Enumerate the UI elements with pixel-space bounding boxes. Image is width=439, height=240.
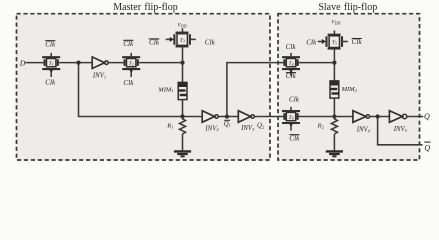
svg-text:INV4: INV4 <box>356 127 371 134</box>
transmission gate T2 <box>122 53 140 77</box>
svg-text:VDD: VDD <box>177 23 186 29</box>
wire Q1-bar riser to slave <box>227 63 285 117</box>
svg-text:INV5: INV5 <box>393 126 408 133</box>
inverter INV2 <box>202 111 219 133</box>
node G junction <box>376 114 380 118</box>
svg-text:D: D <box>19 58 26 67</box>
wire INV3 to slave T6 <box>254 116 284 118</box>
pin label Clk-bar left of T3 <box>149 39 160 47</box>
wire T1 to INV1 <box>58 62 92 64</box>
svg-text:R2: R2 <box>317 123 325 130</box>
pin label Clk-bar below T4 <box>286 72 297 80</box>
svg-text:T1: T1 <box>49 61 54 67</box>
inverter INV5 <box>389 111 407 133</box>
wire node A feedback riser <box>79 63 203 117</box>
svg-text:MIM2: MIM2 <box>341 86 358 93</box>
svg-text:T2: T2 <box>129 61 134 67</box>
node C junction <box>180 114 184 118</box>
pin label Clk-bar above T1 <box>45 40 56 48</box>
master flip-flop dashed box <box>17 14 271 160</box>
svg-text:Q: Q <box>424 112 430 121</box>
svg-text:Clk: Clk <box>286 72 297 80</box>
inverter INV3 <box>238 111 255 132</box>
wire T4 to node E <box>298 62 335 64</box>
svg-text:Clk: Clk <box>289 96 300 104</box>
wire T5 to node E <box>333 49 335 63</box>
transmission gate T3 (vertical, to Vdd) <box>166 28 196 46</box>
svg-text:Clk: Clk <box>45 79 56 87</box>
wire INV1 to T2 <box>108 62 124 64</box>
wire INV2 to INV3 <box>218 116 238 118</box>
node B junction <box>180 61 184 65</box>
wire T2 to node B <box>138 62 183 64</box>
svg-text:Clk: Clk <box>306 39 317 47</box>
wire T6 to INV4 <box>298 116 353 118</box>
svg-text:Clk: Clk <box>123 79 134 87</box>
node E junction <box>332 61 336 65</box>
wire MIM2 to lower rail <box>333 98 335 116</box>
svg-text:Clk: Clk <box>149 39 160 47</box>
svg-text:Clk: Clk <box>123 40 134 48</box>
inverter INV4 <box>353 111 371 134</box>
svg-text:VDD: VDD <box>331 20 340 26</box>
node label Q1-bar <box>224 120 231 128</box>
svg-text:Clk: Clk <box>352 38 363 46</box>
svg-text:Q1: Q1 <box>224 121 231 128</box>
svg-text:Clk: Clk <box>289 134 300 142</box>
resistor R1 <box>166 117 185 135</box>
wire INV5 to output Q <box>407 116 424 118</box>
svg-text:T3: T3 <box>180 38 185 44</box>
transmission gate T1 <box>42 53 60 77</box>
resistor R2 <box>317 117 338 135</box>
node Q1-bar junction <box>225 114 229 118</box>
wire T3 to node B <box>182 46 184 62</box>
wire MIM1 to lower rail <box>182 100 184 117</box>
wire node E down to MIM2 <box>333 63 335 81</box>
ground below R2 <box>326 134 343 156</box>
node A junction <box>76 61 80 65</box>
ground below R1 <box>174 134 191 156</box>
svg-text:T5: T5 <box>332 40 337 46</box>
wire node B down to MIM1 <box>182 63 184 83</box>
svg-text:R1: R1 <box>166 123 173 130</box>
svg-text:MIM1: MIM1 <box>157 86 173 93</box>
capacitor MIM1 <box>157 82 187 99</box>
svg-text:Master flip-flop: Master flip-flop <box>113 2 177 13</box>
svg-text:Slave flip-flop: Slave flip-flop <box>318 2 377 13</box>
svg-text:Q: Q <box>424 143 430 152</box>
svg-text:INV2: INV2 <box>204 125 219 132</box>
svg-text:Clk: Clk <box>45 40 56 48</box>
wire Q-bar branch <box>378 117 423 145</box>
pin label Clk-bar above T2 <box>123 40 134 48</box>
slave flip-flop dashed box <box>278 14 420 160</box>
wire D to T1 <box>26 62 45 64</box>
svg-text:T4: T4 <box>288 61 293 67</box>
inverter INV1 <box>92 57 108 80</box>
svg-text:Q2: Q2 <box>257 123 265 130</box>
node Q-bar output label <box>424 142 430 152</box>
transmission gate T6 <box>282 107 300 131</box>
svg-text:INV1: INV1 <box>92 73 106 80</box>
svg-text:Clk: Clk <box>286 43 297 51</box>
svg-text:INV3: INV3 <box>240 125 255 132</box>
capacitor MIM2 <box>330 81 358 98</box>
svg-text:Clk: Clk <box>205 38 216 46</box>
svg-text:T6: T6 <box>288 115 293 121</box>
transmission gate T5 (vertical, to Vdd) <box>318 30 348 48</box>
wire INV4 to INV5 <box>370 116 390 118</box>
pin label Clk-bar below T6 <box>289 134 300 142</box>
pin label Clk-bar right of T5 <box>352 38 363 46</box>
transmission gate T4 <box>282 53 300 76</box>
node F junction <box>332 114 336 118</box>
